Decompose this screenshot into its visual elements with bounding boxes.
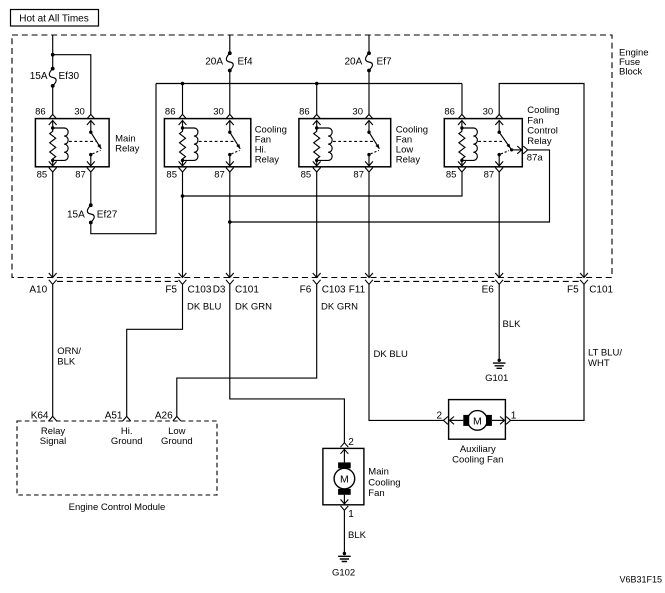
node entry K64 xyxy=(31,411,67,448)
svg-text:85: 85 xyxy=(446,170,457,181)
svg-text:30: 30 xyxy=(213,107,224,118)
wire relay4 30 to exit F5 C101 xyxy=(499,84,584,278)
ground G102 xyxy=(338,552,351,562)
wire DK GRN F6 to ECM A26 xyxy=(177,284,317,416)
ground G101 xyxy=(493,359,506,369)
svg-text:DK GRN: DK GRN xyxy=(235,302,272,313)
wire relay3 87 to exit F11 xyxy=(368,172,370,278)
svg-text:DK BLU: DK BLU xyxy=(374,349,408,360)
svg-text:85: 85 xyxy=(166,170,177,181)
svg-text:G101: G101 xyxy=(485,373,508,384)
wire rail to relay4 86 xyxy=(461,84,463,115)
wire rail left drop to fuse Ef27 xyxy=(91,84,156,234)
node entry A51 xyxy=(105,411,143,448)
svg-text:Cooling Fan: Cooling Fan xyxy=(452,455,503,466)
node exit F5 C103 xyxy=(165,273,212,296)
svg-text:A26: A26 xyxy=(155,411,173,422)
svg-text:M: M xyxy=(340,474,349,486)
node exit A10 xyxy=(29,273,56,296)
svg-text:Relay: Relay xyxy=(396,155,421,166)
svg-text:30: 30 xyxy=(74,107,85,118)
svg-text:Main: Main xyxy=(368,467,389,478)
wire relay2 87 to exit D3 xyxy=(229,172,231,278)
svg-text:1: 1 xyxy=(348,509,354,520)
wire hi ground bus relay2 85 to relay4 85 xyxy=(181,194,185,198)
wire DK BLU F5 to ECM A51 xyxy=(127,284,183,416)
engine control module dashed box xyxy=(17,421,217,495)
svg-text:Auxiliary: Auxiliary xyxy=(460,444,496,455)
svg-text:87a: 87a xyxy=(527,152,544,163)
svg-text:Fan: Fan xyxy=(368,488,384,499)
wire fuse Ef4 to relay2 30 xyxy=(229,71,231,115)
wire to fuse Ef30 xyxy=(52,55,54,69)
wire feed Ef7 xyxy=(368,35,370,53)
svg-text:K64: K64 xyxy=(31,411,49,422)
node junction rail relay3 86 xyxy=(315,82,319,86)
wire branch to relay1 30 xyxy=(53,55,91,115)
wire feed Ef4 xyxy=(229,35,231,53)
svg-text:Relay: Relay xyxy=(255,155,280,166)
svg-text:F6: F6 xyxy=(300,285,312,296)
svg-text:87: 87 xyxy=(75,170,86,181)
wire rail to relay2 86 xyxy=(182,84,184,115)
wire relay1 85 to exit A10 xyxy=(52,172,54,278)
svg-text:87: 87 xyxy=(214,170,225,181)
relay U2 Cooling Fan Hi. Relay xyxy=(164,107,287,181)
node exit D3 C101 xyxy=(213,273,260,296)
svg-text:M: M xyxy=(473,415,482,427)
svg-text:BLK: BLK xyxy=(57,356,76,367)
relay U3 Cooling Fan Low Relay xyxy=(299,107,428,181)
svg-text:G102: G102 xyxy=(332,567,355,578)
svg-text:85: 85 xyxy=(301,170,312,181)
svg-text:Ef7: Ef7 xyxy=(377,57,392,68)
node exit F11 xyxy=(349,273,373,296)
svg-text:30: 30 xyxy=(483,107,494,118)
motor M2 Auxiliary Cooling Fan xyxy=(436,400,516,466)
svg-text:15A: 15A xyxy=(30,71,48,82)
svg-text:F5: F5 xyxy=(165,285,177,296)
svg-text:Cooling: Cooling xyxy=(368,477,400,488)
svg-text:87: 87 xyxy=(484,170,495,181)
wire DK BLU F11 to auxiliary fan pin 2 xyxy=(369,284,443,420)
svg-text:Ef27: Ef27 xyxy=(97,210,118,221)
node exit E6 xyxy=(482,273,504,296)
svg-text:Engine Control Module: Engine Control Module xyxy=(69,502,166,513)
relay U1 Main Relay xyxy=(35,107,140,181)
fuse Ef7 xyxy=(366,51,373,72)
svg-text:20A: 20A xyxy=(205,57,223,68)
svg-text:A51: A51 xyxy=(105,411,123,422)
svg-text:A10: A10 xyxy=(29,285,47,296)
svg-text:Relay: Relay xyxy=(115,144,140,155)
svg-text:85: 85 xyxy=(37,170,48,181)
svg-text:DK BLU: DK BLU xyxy=(187,302,221,313)
svg-text:C101: C101 xyxy=(235,285,259,296)
wire relay3 85 to exit F6 xyxy=(316,172,318,278)
svg-text:C103: C103 xyxy=(188,285,212,296)
svg-text:F11: F11 xyxy=(349,285,366,296)
wire fuse Ef30 to relay1 86 xyxy=(52,86,54,115)
svg-text:V6B31F15: V6B31F15 xyxy=(619,575,662,585)
svg-text:86: 86 xyxy=(444,107,455,118)
fuse Ef4 xyxy=(226,51,233,72)
svg-text:20A: 20A xyxy=(345,57,363,68)
svg-text:BLK: BLK xyxy=(348,530,367,541)
svg-text:86: 86 xyxy=(35,107,46,118)
svg-text:2: 2 xyxy=(348,437,354,448)
svg-text:Signal: Signal xyxy=(40,436,66,447)
svg-text:C103: C103 xyxy=(322,285,346,296)
svg-text:Hot at All Times: Hot at All Times xyxy=(19,14,88,25)
wire BLK E6 to ground G101 xyxy=(498,284,500,360)
svg-text:DK GRN: DK GRN xyxy=(321,302,358,313)
svg-text:1: 1 xyxy=(511,411,517,422)
svg-text:86: 86 xyxy=(299,107,310,118)
svg-text:30: 30 xyxy=(352,107,363,118)
svg-text:Ef30: Ef30 xyxy=(59,71,80,82)
svg-text:Ground: Ground xyxy=(161,436,193,447)
wire feed Ef30 xyxy=(52,35,54,55)
node exit F6 C103 xyxy=(300,273,346,296)
fuse Ef30 xyxy=(49,67,56,88)
svg-text:D3: D3 xyxy=(213,285,226,296)
svg-text:F5: F5 xyxy=(567,285,579,296)
svg-text:Relay: Relay xyxy=(527,136,552,147)
wire rail from Ef27 xyxy=(156,83,462,85)
node Hot at All Times xyxy=(11,10,99,27)
wire relay4 87 to exit E6 xyxy=(498,172,500,278)
engine fuse block label xyxy=(619,48,649,78)
relay U4 Cooling Fan Control Relay xyxy=(444,105,559,180)
svg-text:86: 86 xyxy=(165,107,176,118)
svg-text:WHT: WHT xyxy=(588,358,610,369)
node entry A26 xyxy=(155,411,193,448)
wire relay2 85 to exit F5 xyxy=(182,172,184,278)
fuse Ef27 xyxy=(87,203,94,224)
wire fuse Ef7 to relay3 30 xyxy=(368,71,370,115)
node junction xyxy=(51,53,55,57)
svg-text:2: 2 xyxy=(436,411,442,422)
wire ORN/BLK A10 to ECM K64 xyxy=(52,284,54,416)
wire LT BLU/WHT F5 C101 to auxiliary fan pin 1 xyxy=(511,284,584,420)
svg-text:E6: E6 xyxy=(482,285,495,296)
svg-text:BLK: BLK xyxy=(503,319,522,330)
svg-text:87: 87 xyxy=(353,170,364,181)
node junction rail relay2 86 xyxy=(181,82,185,86)
svg-text:Block: Block xyxy=(619,67,642,78)
motor M1 Main Cooling Fan xyxy=(323,437,401,520)
wire DK GRN D3 to main cooling fan pin 2 xyxy=(230,284,345,442)
wire BLK main fan pin 1 to ground G102 xyxy=(343,510,345,553)
svg-text:C101: C101 xyxy=(589,285,613,296)
svg-text:Ground: Ground xyxy=(111,436,143,447)
svg-text:Ef4: Ef4 xyxy=(238,57,253,68)
wire relay1 87 to fuse Ef27 xyxy=(90,172,92,205)
svg-text:15A: 15A xyxy=(67,210,85,221)
wire relay2 87 to relay4 87a xyxy=(228,220,232,224)
node exit F5 C101 xyxy=(567,273,614,296)
engine fuse block dashed box xyxy=(12,35,612,281)
wire rail to relay3 86 xyxy=(316,84,318,115)
